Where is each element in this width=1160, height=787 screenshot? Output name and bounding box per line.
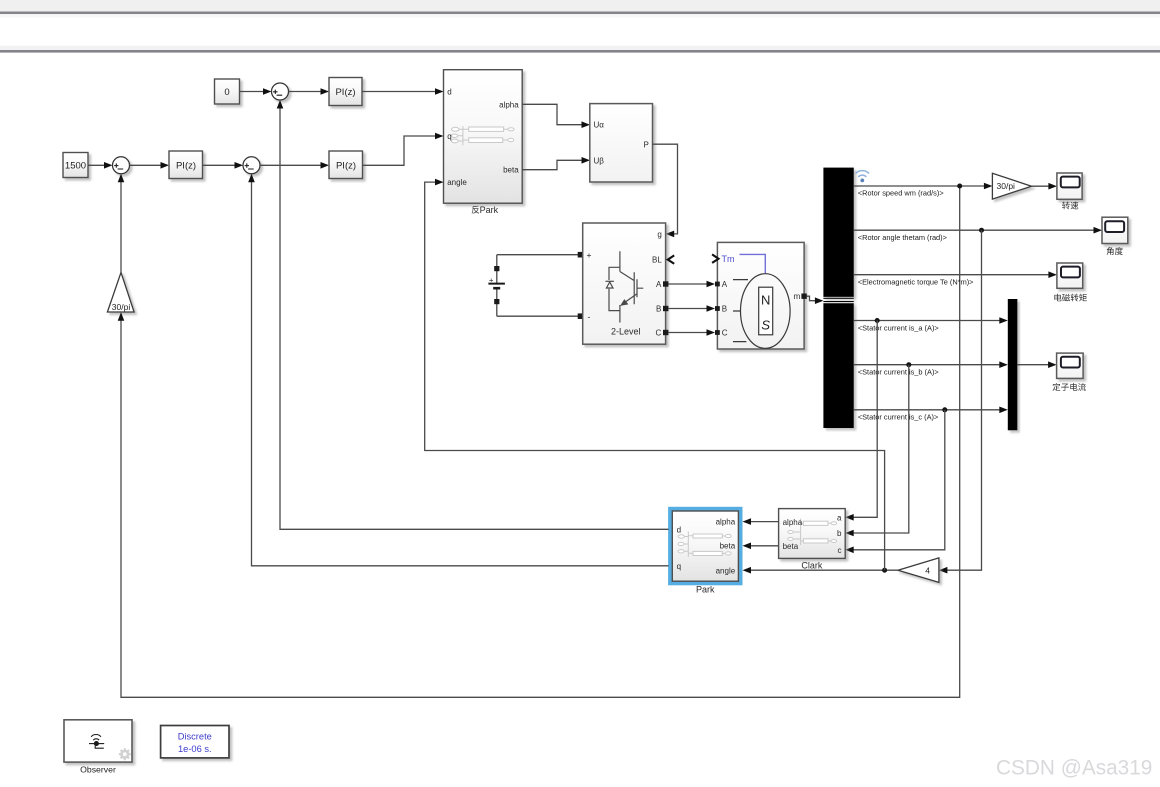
SVPWM subsystem [590, 104, 653, 182]
svg-text:BL: BL [652, 256, 662, 265]
svg-text:<Stator current is_a (A)>: <Stator current is_a (A)> [858, 323, 939, 332]
toolbar strip top [0, 0, 1160, 12]
wire sum S1 to PI(z) speed [130, 162, 170, 169]
2-Level IGBT and diode icon [606, 251, 644, 322]
PI controller PI(z) q-axis [329, 151, 363, 179]
svg-text:alpha: alpha [499, 100, 519, 109]
gain 30/pi right (points right) [992, 173, 1031, 199]
wire PI(z) speed to sum S2 [203, 162, 243, 169]
wire 1500 to sum S1 [88, 162, 113, 169]
junction angle branch [882, 568, 887, 573]
wire Clark beta to Park beta [743, 543, 779, 550]
junction rotor angle feedback [979, 228, 984, 233]
svg-text:B: B [722, 305, 727, 314]
svg-text:PI(z): PI(z) [336, 161, 356, 172]
Clark port labels [783, 514, 842, 555]
svg-text:+: + [587, 250, 592, 260]
wire gain 4 to Park angle [743, 567, 899, 574]
wire gain 30/pi up to sum S1 [118, 174, 125, 273]
toolbar substrip [0, 14, 1160, 17]
PI controller PI(z) speed [169, 151, 203, 179]
Observer gear badge [119, 748, 131, 760]
motor Tm unconnected input chevron [712, 254, 718, 263]
svg-text:Discrete: Discrete [178, 732, 212, 742]
svg-text:4: 4 [925, 566, 930, 576]
sum S1 (speed error) [113, 157, 130, 174]
svg-text:PI(z): PI(z) [176, 161, 196, 172]
svg-text:Uβ: Uβ [594, 156, 605, 165]
wire motor m to bus selector [807, 296, 824, 304]
svg-text:Tm: Tm [722, 254, 735, 264]
svg-text:g: g [657, 230, 661, 239]
2-Level converter block [583, 223, 666, 344]
svg-text:<Stator current is_b (A)>: <Stator current is_b (A)> [858, 368, 939, 377]
wire 反Park alpha to SVPWM Ua [522, 104, 590, 128]
svg-text:<Stator current is_c (A)>: <Stator current is_c (A)> [858, 413, 939, 422]
svg-text:d: d [447, 88, 451, 97]
Park port labels [677, 518, 736, 576]
scope 角度 [1102, 217, 1128, 255]
wire 0 to sum U1 [240, 88, 272, 95]
wire speed feedback from bus junction down-left-up to gain 30/pi [118, 186, 960, 697]
motor input port squares A B C [715, 282, 720, 335]
svg-text:angle: angle [716, 566, 736, 575]
wire mux to scope 定子电流 [1017, 361, 1056, 368]
Park transform subsystem [672, 511, 738, 581]
2-Level BL unconnected input chevron [668, 255, 674, 263]
wire angle branch up to 反Park angle [425, 179, 885, 570]
wire PI(z) q to 反Park q input [363, 133, 444, 166]
wire 2-Level C to motor C [668, 329, 715, 336]
svg-text:beta: beta [720, 542, 736, 551]
Clark inner icon [788, 519, 837, 546]
scope 定子电流 [1053, 353, 1086, 391]
Observer block [64, 720, 132, 762]
svg-text:<Rotor speed wm (rad/s)>: <Rotor speed wm (rad/s)> [858, 189, 944, 198]
svg-text:Park: Park [696, 585, 715, 595]
wire bus rotor speed to gain 30/pi [854, 183, 993, 190]
wire SVPWM P to 2-Level g input [653, 144, 678, 237]
svg-text:alpha: alpha [716, 518, 736, 527]
junction rotor speed feedback [957, 184, 962, 189]
sum S2 (iq error) [243, 157, 260, 174]
junction is_c feedback [942, 407, 947, 412]
wire PI(z) d to 反Park d input [362, 88, 444, 95]
svg-text:C: C [656, 329, 662, 338]
gain 4 (points left) [898, 558, 939, 583]
scope 转速 [1057, 173, 1082, 209]
DC voltage source battery symbol [488, 255, 505, 317]
svg-text:30/pi: 30/pi [112, 302, 131, 312]
wire Clark alpha to Park alpha [743, 518, 779, 525]
sum U1 (id error) [272, 83, 289, 100]
svg-text:m: m [794, 292, 801, 301]
Clark transform subsystem [779, 509, 846, 559]
wire 2-Level B to motor B [668, 305, 715, 312]
svg-text:30/pi: 30/pi [997, 181, 1016, 191]
wire gain 30/pi to scope 转速 [1032, 183, 1057, 190]
wire bus is_c to mux [854, 407, 1008, 414]
反Park inner icon [451, 126, 514, 145]
2-Level output port squares A B C [663, 281, 668, 335]
PMSM motor block [717, 242, 804, 349]
label 反Park [472, 206, 480, 214]
wire 反Park beta to SVPWM Ub [522, 157, 590, 170]
constant block 1500 [63, 153, 88, 178]
svg-text:A: A [656, 280, 662, 289]
svg-text:alpha: alpha [783, 518, 803, 527]
svg-text:1500: 1500 [65, 161, 86, 172]
Observer icon [89, 734, 104, 748]
motor Tm internal blue wire [740, 254, 766, 273]
svg-text:-: - [588, 312, 591, 322]
scope 电磁转矩 [1054, 263, 1087, 302]
wire DC source minus to 2-Level minus [497, 313, 584, 319]
svg-text:P: P [643, 140, 648, 149]
motor rotor ellipse icon [733, 274, 790, 349]
wire bus is_b to mux [854, 361, 1008, 368]
svg-text:CSDN @Asa319: CSDN @Asa319 [996, 757, 1152, 780]
svg-text:q: q [677, 562, 681, 571]
svg-text:Uα: Uα [594, 121, 605, 130]
wire bus torque to scope 电磁转矩 [854, 271, 1057, 278]
svg-text:<Electromagnetic torque Te (N*: <Electromagnetic torque Te (N*m)> [858, 278, 974, 287]
wire is_c feedback to Clark c [845, 410, 945, 553]
junction is_b feedback [906, 362, 911, 367]
wire is_a feedback to Clark a [845, 321, 877, 521]
反Park inverse park transform subsystem [444, 70, 523, 204]
motor m output port square [801, 294, 806, 299]
Park transform subsystem selection highlight [670, 509, 740, 583]
junction is_a feedback [875, 318, 880, 323]
svg-text:angle: angle [447, 178, 467, 187]
breadcrumb strip [0, 46, 1160, 50]
svg-text:1e-06 s.: 1e-06 s. [178, 744, 212, 754]
wire is_b feedback to Clark b [845, 365, 909, 537]
Discrete solver block [161, 726, 229, 758]
svg-text:PI(z): PI(z) [335, 87, 355, 98]
svg-text:<Rotor angle thetam (rad)>: <Rotor angle thetam (rad)> [858, 233, 947, 242]
wire DC source plus to 2-Level plus [497, 252, 584, 258]
wireless logging badge icon [856, 171, 870, 183]
toolbar divider line 1 [0, 12, 1160, 15]
svg-text:c: c [838, 546, 842, 555]
svg-text:a: a [837, 514, 842, 523]
wire Park q output to sum S2 [248, 174, 668, 566]
svg-text:A: A [722, 280, 728, 289]
svg-text:S: S [761, 318, 770, 333]
svg-text:beta: beta [783, 542, 799, 551]
svg-text:C: C [722, 329, 728, 338]
svg-text:Clark: Clark [801, 561, 823, 571]
反Park port labels [447, 88, 519, 188]
wire bus rotor angle to scope 角度 [854, 227, 1102, 234]
gain 30/pi feedback (points up) [107, 272, 134, 312]
svg-text:q: q [447, 132, 451, 141]
svg-text:B: B [656, 305, 661, 314]
svg-text:2-Level: 2-Level [611, 326, 641, 336]
wire sum S2 to PI(z) q [260, 162, 329, 169]
wire Park d output to sum U1 [277, 100, 669, 529]
svg-text:Observer: Observer [80, 765, 116, 775]
mux black bar [1008, 299, 1018, 430]
wire angle feedback from junction down to gain 4 [939, 230, 982, 573]
svg-text:beta: beta [503, 166, 519, 175]
svg-text:Park: Park [480, 205, 499, 215]
toolbar divider line 2 [0, 50, 1160, 53]
bus selector black bar [823, 168, 853, 428]
Park inner icon [678, 532, 731, 558]
svg-text:+: + [489, 275, 494, 284]
wire bus is_a to mux [854, 317, 1008, 324]
PI controller PI(z) d-axis [329, 78, 362, 106]
constant block 0 [215, 79, 240, 104]
svg-text:d: d [677, 525, 681, 534]
svg-text:0: 0 [224, 87, 229, 98]
wire sum U1 to PI(z) d [289, 88, 330, 95]
svg-text:b: b [837, 529, 842, 538]
wire 2-Level A to motor A [668, 281, 715, 288]
svg-text:N: N [761, 293, 770, 308]
